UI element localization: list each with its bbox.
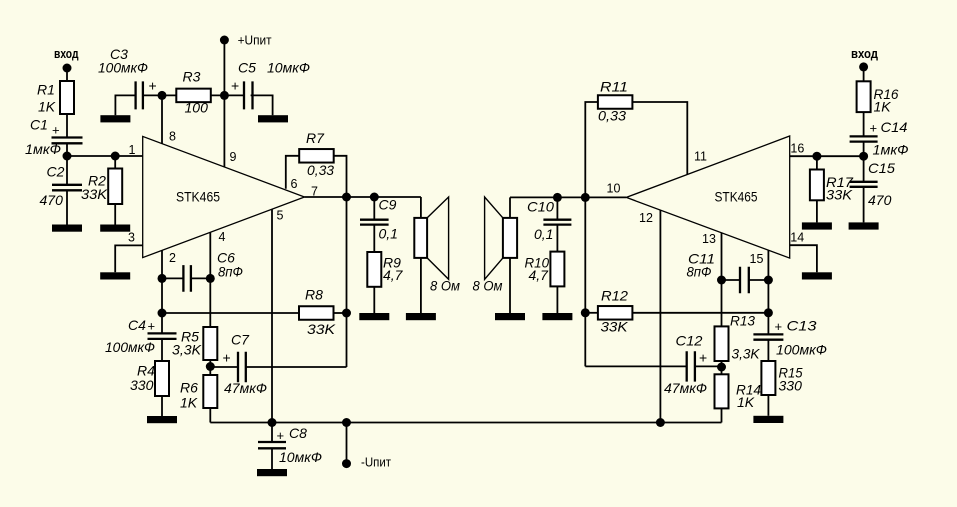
svg-text:13: 13 xyxy=(702,232,716,246)
svg-text:470: 470 xyxy=(40,192,64,208)
svg-text:вход: вход xyxy=(54,47,79,61)
svg-text:C13: C13 xyxy=(787,318,817,334)
svg-text:R6: R6 xyxy=(180,380,198,396)
svg-text:100: 100 xyxy=(185,100,209,116)
svg-text:R11: R11 xyxy=(600,79,628,95)
svg-text:C14: C14 xyxy=(881,119,908,135)
svg-text:5: 5 xyxy=(277,209,284,223)
svg-text:9: 9 xyxy=(230,150,237,164)
svg-text:15: 15 xyxy=(750,252,764,266)
svg-text:1: 1 xyxy=(129,143,136,157)
svg-text:0,33: 0,33 xyxy=(598,108,626,124)
svg-text:1мкФ: 1мкФ xyxy=(25,141,61,157)
svg-text:16: 16 xyxy=(790,142,804,156)
svg-text:33K: 33K xyxy=(826,187,853,203)
svg-text:+: + xyxy=(231,78,239,94)
svg-text:+: + xyxy=(699,350,707,366)
svg-text:+: + xyxy=(775,319,783,334)
svg-text:1мкФ: 1мкФ xyxy=(873,142,909,158)
svg-text:100мкФ: 100мкФ xyxy=(776,342,827,358)
svg-text:10мкФ: 10мкФ xyxy=(267,60,310,76)
svg-text:C5: C5 xyxy=(238,60,256,76)
svg-text:вход: вход xyxy=(851,47,878,61)
svg-text:3,3K: 3,3K xyxy=(172,342,202,358)
svg-text:3: 3 xyxy=(128,230,135,244)
svg-text:47мкФ: 47мкФ xyxy=(224,380,267,396)
svg-text:-Uпит: -Uпит xyxy=(361,455,391,470)
svg-text:C1: C1 xyxy=(30,117,48,133)
svg-text:+: + xyxy=(52,123,60,138)
svg-text:STK465: STK465 xyxy=(176,190,220,205)
svg-text:4,7: 4,7 xyxy=(383,267,404,283)
svg-text:+: + xyxy=(870,121,878,136)
svg-text:4,7: 4,7 xyxy=(529,267,550,283)
svg-text:+: + xyxy=(148,319,156,334)
svg-text:330: 330 xyxy=(130,377,154,393)
svg-text:0,1: 0,1 xyxy=(534,226,553,242)
svg-text:1K: 1K xyxy=(38,99,56,115)
svg-text:C12: C12 xyxy=(676,333,703,349)
svg-text:4: 4 xyxy=(219,230,226,244)
svg-text:1K: 1K xyxy=(737,394,755,410)
svg-text:2: 2 xyxy=(169,251,176,265)
svg-text:6: 6 xyxy=(291,177,298,191)
svg-text:33K: 33K xyxy=(81,186,108,202)
svg-text:47мкФ: 47мкФ xyxy=(664,380,707,396)
svg-text:12: 12 xyxy=(639,211,653,225)
svg-text:14: 14 xyxy=(790,231,804,245)
svg-text:8: 8 xyxy=(169,130,176,144)
svg-text:8пФ: 8пФ xyxy=(218,264,243,280)
svg-text:1K: 1K xyxy=(874,99,892,115)
svg-text:0,1: 0,1 xyxy=(379,226,398,242)
svg-text:+: + xyxy=(277,428,285,443)
svg-text:7: 7 xyxy=(311,185,318,199)
svg-text:+: + xyxy=(223,350,231,366)
svg-text:C2: C2 xyxy=(47,164,65,180)
svg-text:330: 330 xyxy=(779,378,803,394)
svg-text:C7: C7 xyxy=(231,332,250,348)
svg-text:C8: C8 xyxy=(289,425,307,441)
svg-text:C4: C4 xyxy=(128,317,146,333)
svg-text:1K: 1K xyxy=(180,395,198,411)
svg-text:8 Ом: 8 Ом xyxy=(430,278,460,294)
svg-text:C9: C9 xyxy=(379,197,397,213)
svg-text:+Uпит: +Uпит xyxy=(238,32,272,47)
svg-text:8 Ом: 8 Ом xyxy=(473,278,503,294)
svg-text:0,33: 0,33 xyxy=(307,162,334,178)
svg-text:R12: R12 xyxy=(601,288,628,304)
svg-text:R3: R3 xyxy=(183,69,201,85)
svg-text:10мкФ: 10мкФ xyxy=(279,449,322,465)
svg-text:C15: C15 xyxy=(868,160,895,176)
svg-text:100мкФ: 100мкФ xyxy=(98,60,148,76)
svg-text:11: 11 xyxy=(694,150,707,164)
svg-text:10: 10 xyxy=(607,182,621,196)
svg-text:R13: R13 xyxy=(730,313,755,329)
svg-text:C10: C10 xyxy=(527,199,554,215)
svg-text:R7: R7 xyxy=(306,130,325,146)
svg-text:33K: 33K xyxy=(601,319,629,335)
svg-text:STK465: STK465 xyxy=(715,190,758,205)
svg-text:+: + xyxy=(149,77,157,93)
svg-text:3,3K: 3,3K xyxy=(732,346,761,362)
svg-text:R1: R1 xyxy=(37,81,55,97)
svg-text:8пФ: 8пФ xyxy=(687,264,712,280)
svg-text:R8: R8 xyxy=(305,287,323,303)
svg-text:33K: 33K xyxy=(307,321,336,337)
svg-text:470: 470 xyxy=(868,192,892,208)
svg-text:100мкФ: 100мкФ xyxy=(105,339,155,355)
